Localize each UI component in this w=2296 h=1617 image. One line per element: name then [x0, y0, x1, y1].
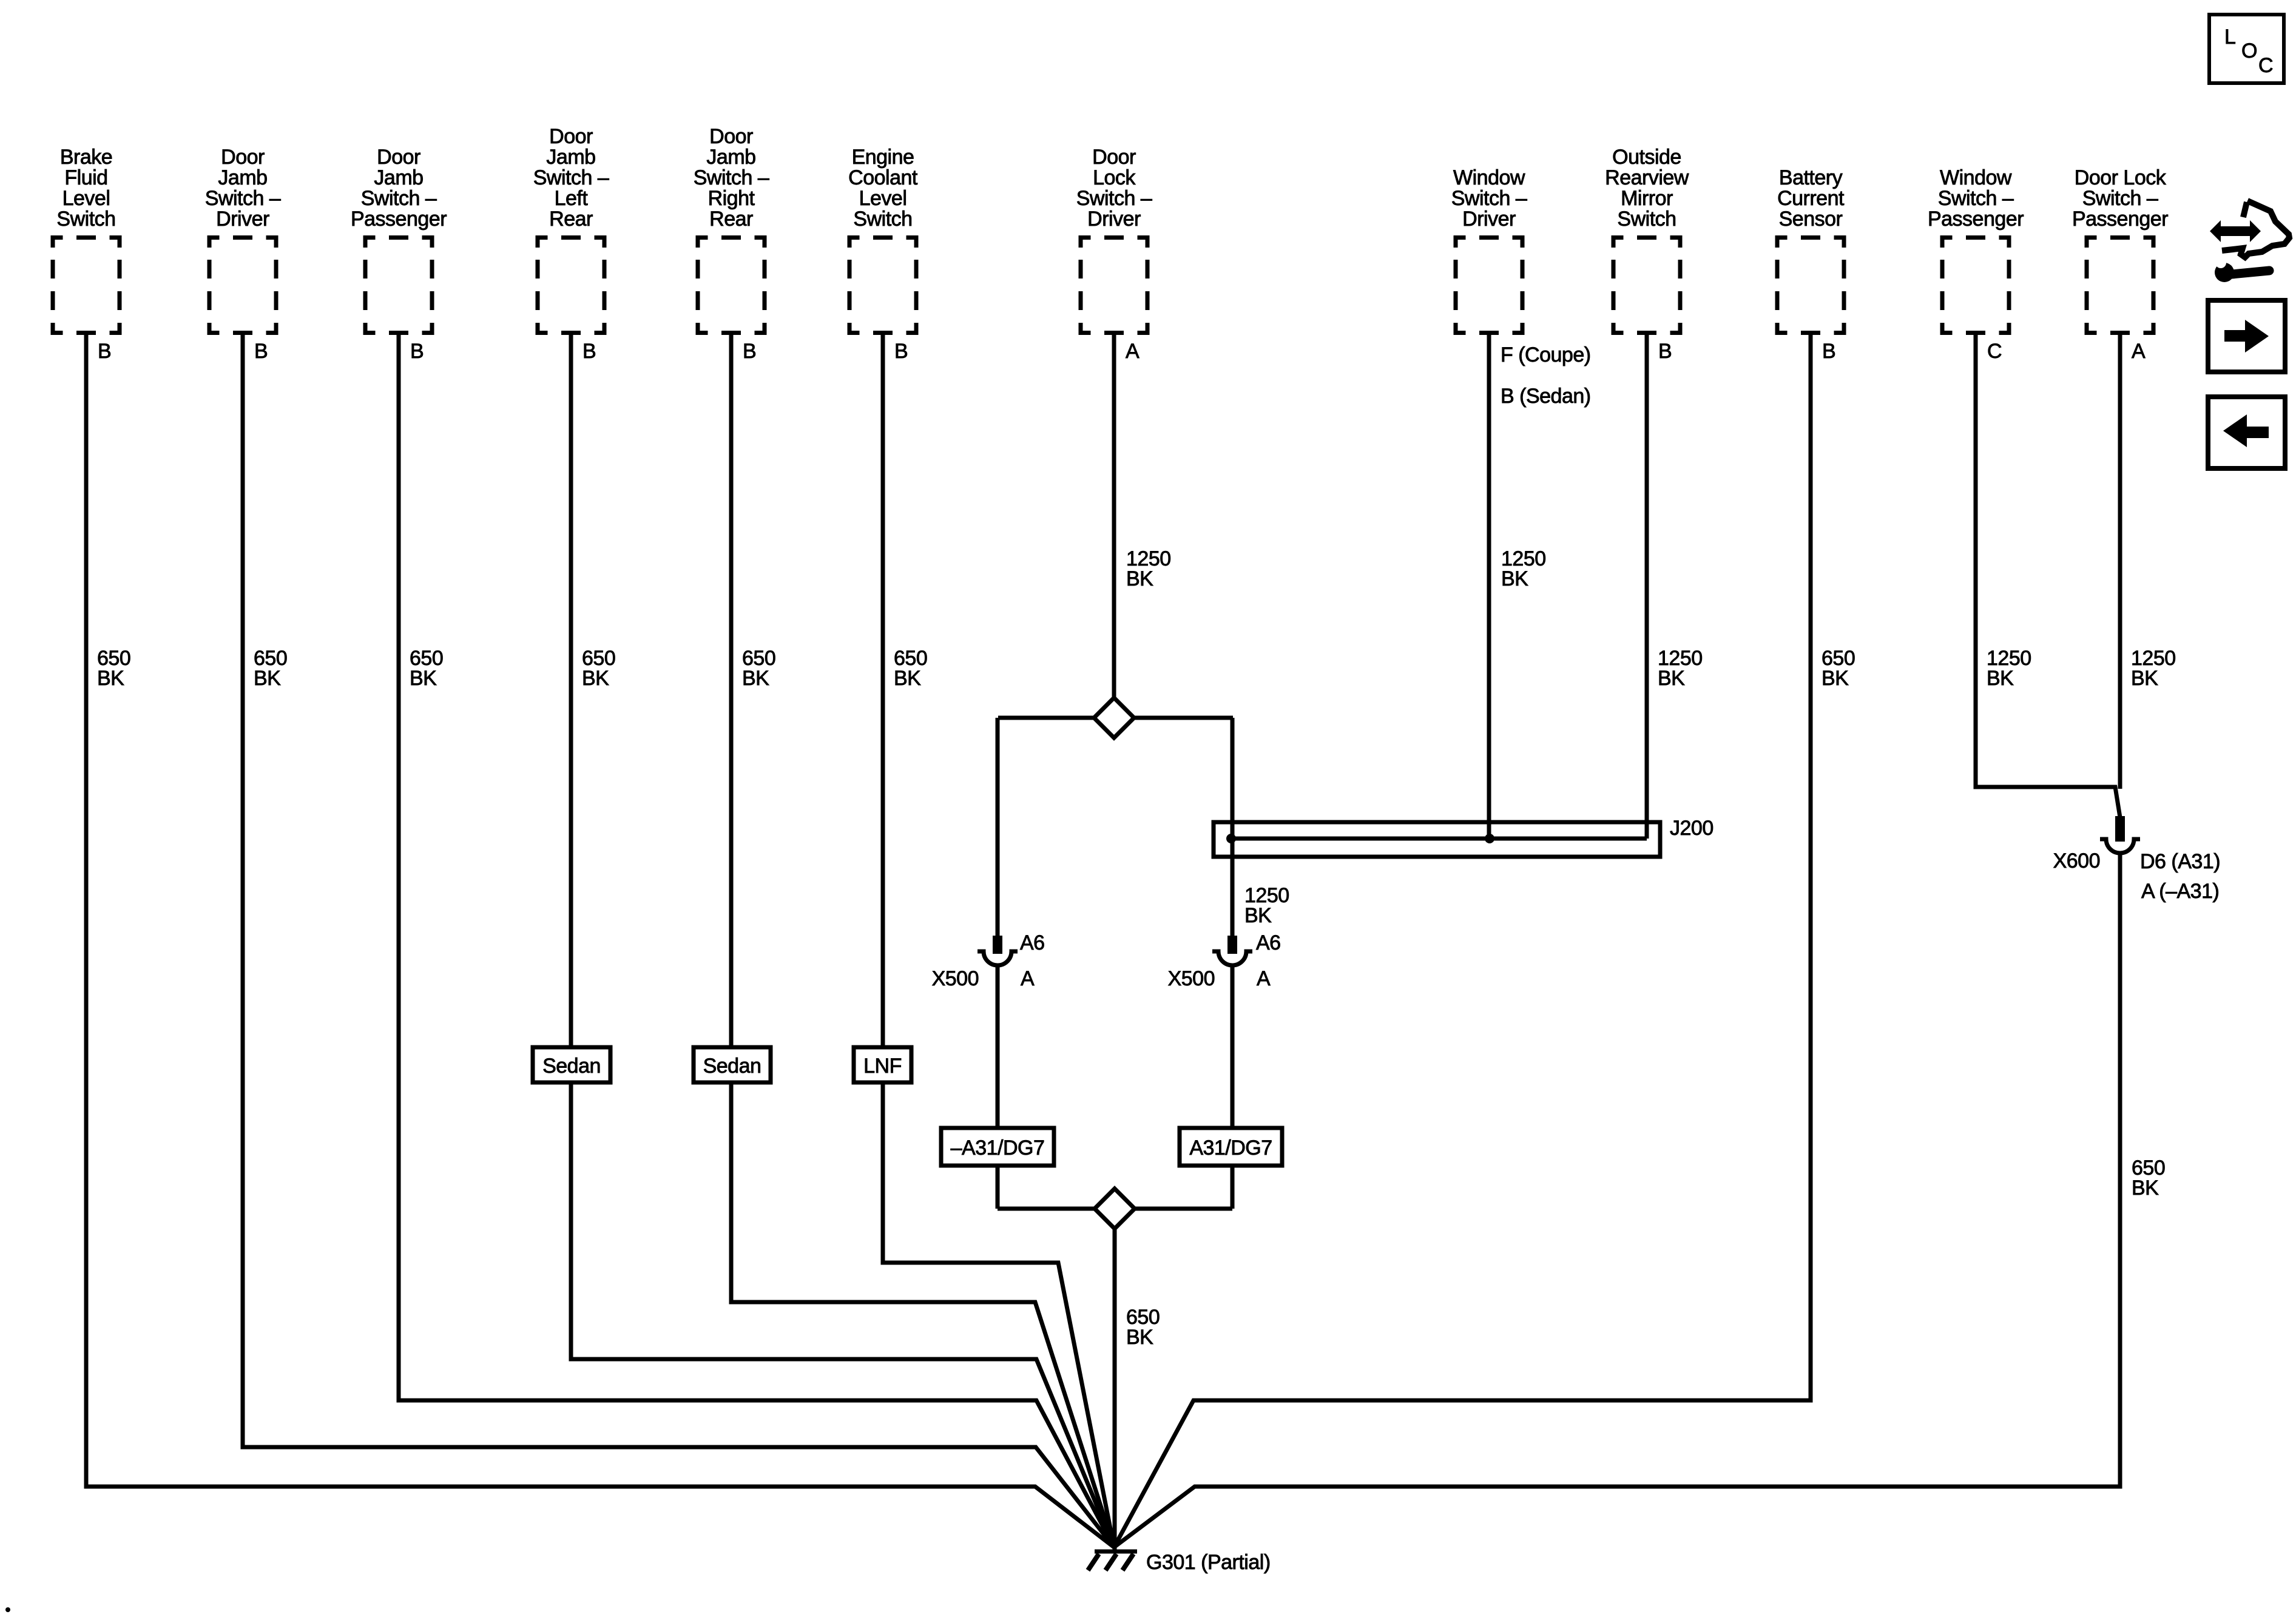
svg-text:Right: Right: [708, 187, 755, 210]
svg-text:B: B: [582, 340, 596, 363]
svg-text:Driver: Driver: [216, 208, 269, 231]
svg-text:G301 (Partial): G301 (Partial): [1146, 1551, 1271, 1574]
svg-text:X500: X500: [932, 967, 979, 990]
svg-text:Switch –: Switch –: [533, 166, 609, 189]
svg-text:Driver: Driver: [1087, 208, 1141, 231]
svg-text:Level: Level: [62, 187, 110, 210]
svg-text:O: O: [2241, 39, 2257, 62]
svg-text:BK: BK: [1987, 667, 2014, 690]
svg-text:Window: Window: [1940, 166, 2012, 189]
svg-text:X500: X500: [1168, 967, 1215, 990]
svg-text:Switch: Switch: [56, 208, 115, 231]
svg-text:A (–A31): A (–A31): [2141, 880, 2219, 903]
svg-text:Switch –: Switch –: [1938, 187, 2014, 210]
svg-text:Switch –: Switch –: [1076, 187, 1152, 210]
svg-text:Level: Level: [859, 187, 907, 210]
svg-text:LNF: LNF: [863, 1055, 902, 1078]
svg-text:Rearview: Rearview: [1605, 166, 1689, 189]
svg-text:B (Sedan): B (Sedan): [1501, 385, 1591, 408]
svg-text:Brake: Brake: [60, 146, 112, 169]
svg-text:C: C: [2258, 54, 2274, 77]
svg-text:Sedan: Sedan: [703, 1055, 761, 1078]
svg-text:A: A: [1021, 967, 1035, 990]
svg-text:B: B: [410, 340, 424, 363]
svg-text:Passenger: Passenger: [1928, 208, 2024, 231]
svg-text:Door Lock: Door Lock: [2075, 166, 2167, 189]
svg-text:Jamb: Jamb: [374, 166, 423, 189]
svg-text:BK: BK: [2131, 667, 2158, 690]
svg-text:A: A: [2132, 340, 2146, 363]
svg-text:Rear: Rear: [709, 208, 753, 231]
svg-text:A6: A6: [1256, 931, 1281, 954]
svg-text:Door: Door: [377, 146, 420, 169]
svg-text:Engine: Engine: [852, 146, 914, 169]
svg-text:Mirror: Mirror: [1621, 187, 1673, 210]
svg-text:Left: Left: [555, 187, 589, 210]
svg-text:D6 (A31): D6 (A31): [2140, 850, 2220, 873]
svg-text:B: B: [1822, 340, 1835, 363]
svg-text:BK: BK: [97, 667, 124, 690]
svg-text:Battery: Battery: [1779, 166, 1843, 189]
svg-text:C: C: [1987, 340, 2002, 363]
svg-text:B: B: [98, 340, 111, 363]
svg-text:Door: Door: [709, 125, 753, 148]
svg-text:BK: BK: [1658, 667, 1685, 690]
svg-text:Jamb: Jamb: [218, 166, 267, 189]
svg-text:Switch –: Switch –: [2082, 187, 2158, 210]
svg-text:–A31/DG7: –A31/DG7: [951, 1136, 1045, 1160]
svg-text:F (Coupe): F (Coupe): [1501, 343, 1591, 366]
svg-text:Switch –: Switch –: [205, 187, 281, 210]
svg-text:Outside: Outside: [1612, 146, 1681, 169]
svg-text:B: B: [254, 340, 268, 363]
svg-text:L: L: [2224, 25, 2236, 49]
svg-text:B: B: [743, 340, 756, 363]
svg-text:A6: A6: [1020, 931, 1045, 954]
svg-text:BK: BK: [1126, 567, 1153, 590]
svg-text:Switch –: Switch –: [361, 187, 437, 210]
svg-text:BK: BK: [894, 667, 921, 690]
svg-text:Passenger: Passenger: [2072, 208, 2168, 231]
svg-text:BK: BK: [410, 667, 437, 690]
svg-text:Jamb: Jamb: [706, 146, 755, 169]
svg-text:A31/DG7: A31/DG7: [1189, 1136, 1272, 1160]
svg-text:BK: BK: [1501, 567, 1528, 590]
svg-text:Switch: Switch: [1617, 208, 1676, 231]
svg-text:Door: Door: [549, 125, 593, 148]
svg-text:Switch –: Switch –: [694, 166, 769, 189]
svg-text:Sedan: Sedan: [542, 1055, 601, 1078]
svg-text:Current: Current: [1777, 187, 1845, 210]
svg-text:Window: Window: [1453, 166, 1525, 189]
svg-text:BK: BK: [1822, 667, 1849, 690]
svg-text:BK: BK: [582, 667, 609, 690]
svg-text:Switch: Switch: [853, 208, 912, 231]
svg-text:BK: BK: [1244, 904, 1272, 927]
svg-text:Passenger: Passenger: [351, 208, 447, 231]
svg-text:BK: BK: [2132, 1176, 2159, 1200]
svg-text:Door: Door: [221, 146, 265, 169]
svg-text:B: B: [894, 340, 908, 363]
svg-text:Driver: Driver: [1462, 208, 1516, 231]
svg-text:B: B: [1658, 340, 1672, 363]
svg-text:A: A: [1126, 340, 1140, 363]
svg-text:X600: X600: [2053, 849, 2100, 873]
svg-text:Fluid: Fluid: [64, 166, 107, 189]
svg-text:Jamb: Jamb: [546, 146, 595, 169]
svg-text:BK: BK: [742, 667, 769, 690]
svg-text:Door: Door: [1092, 146, 1136, 169]
svg-text:Rear: Rear: [549, 208, 593, 231]
svg-text:Sensor: Sensor: [1779, 208, 1843, 231]
svg-text:Coolant: Coolant: [848, 166, 918, 189]
svg-text:A: A: [1257, 967, 1271, 990]
svg-text:BK: BK: [254, 667, 281, 690]
svg-text:J200: J200: [1670, 817, 1714, 840]
svg-text:BK: BK: [1126, 1326, 1153, 1349]
svg-text:Lock: Lock: [1093, 166, 1136, 189]
svg-text:Switch –: Switch –: [1451, 187, 1527, 210]
